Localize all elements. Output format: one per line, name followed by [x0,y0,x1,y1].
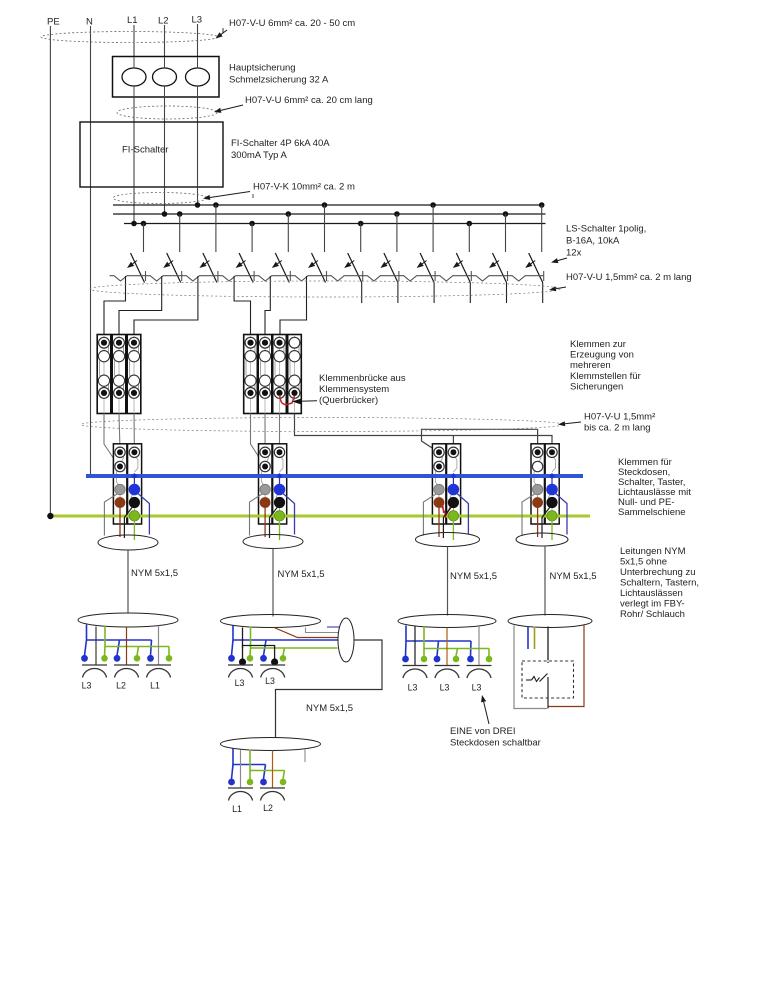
breaker LS3 trip arrow [205,261,209,264]
svg-text:Klemmenbrücke aus: Klemmenbrücke aus [319,373,406,384]
svg-text:12x: 12x [566,248,582,259]
wire N blue chain group1 [87,625,152,641]
breaker LS3 switch blade [203,253,217,283]
breaker LS10 input wire and bus junction [467,221,473,227]
bus L3 top rail [113,204,542,206]
breaker LS6 input wire and bus junction [322,202,328,208]
wire brown switched return right [549,625,585,707]
junction feed L1 on bottom rail [131,221,137,227]
wire K3 to socket terminal block 1 [133,414,135,451]
cable marker ellipse H07-V-U 1,5mm2 2m [90,281,560,297]
svg-text:Sammelschiene: Sammelschiene [618,507,686,518]
svg-text:Lichtauslässen: Lichtauslässen [620,588,683,599]
svg-text:L1: L1 [232,804,242,814]
breaker LS2 output wire to terminal [119,276,162,335]
breaker LS11 output stub wire [506,283,508,304]
svg-text:N: N [86,17,93,28]
socket L1 group3 [228,787,253,789]
svg-text:Leitungen NYM: Leitungen NYM [620,546,686,557]
svg-text:H07-V-U 1,5mm²: H07-V-U 1,5mm² [584,412,655,423]
svg-text:LS-Schalter 1polig,: LS-Schalter 1polig, [566,224,646,235]
breaker LS8 trip arrow [386,261,390,264]
cable marker ellipse H07-V-K 10mm2 [113,193,207,204]
breaker LS9 output stub wire [433,283,435,304]
svg-text:H07-V-K 10mm² ca. 2 m: H07-V-K 10mm² ca. 2 m [253,182,355,193]
breaker LS5 thermal element [254,276,290,281]
wire K7 phase feed to blocks 3 and 4 [295,414,553,451]
wire phase gray socket1 group3 [240,750,242,789]
breaker LS2 input wire and bus junction [177,211,183,217]
socket L3c group4 [467,665,492,667]
wire L3 fuse internal [197,57,199,69]
socket terminal block 3 body [432,444,460,524]
breaker LS6 trip arrow [314,261,318,264]
breaker LS4 output wire to terminal [234,276,250,335]
svg-text:NYM 5x1,5: NYM 5x1,5 [550,571,597,582]
svg-text:Schmelzsicherung 32 A: Schmelzsicherung 32 A [229,75,329,86]
breaker LS7 output stub wire [361,283,363,304]
svg-text:300mA Typ A: 300mA Typ A [231,150,287,161]
wire NYM drop 3 [447,547,449,616]
wire PE green chain group4 [424,627,489,649]
wire PE green chain group1 [105,626,169,647]
breaker LS5 switch blade [275,253,289,283]
svg-text:L3: L3 [235,678,245,688]
breaker LS2 trip arrow [169,261,173,264]
breaker LS12 switch blade [529,253,543,283]
svg-text:EINE von DREI: EINE von DREI [450,726,515,737]
node N dots group3 [228,779,235,786]
wire NYM drop 2 [272,549,274,617]
breaker LS12 thermal element [508,276,544,281]
wire PE rail vertical [49,26,51,516]
socket L3a group2 [228,664,253,666]
breaker LS6 switch blade [312,253,326,283]
svg-text:Klemmensystem: Klemmensystem [319,384,389,395]
node phase dots group2 [239,658,246,665]
socket terminal block 3 terminals and wires with red switch-wire [450,473,456,479]
wire chain block3-left to block4-left [422,429,538,450]
terminal strip group1 K1 [97,335,111,414]
svg-text:L1: L1 [150,681,160,691]
svg-text:Unterbrechung zu: Unterbrechung zu [620,567,696,578]
terminal strip group2 K6 [273,335,287,414]
breaker LS8 switch blade [384,253,398,283]
svg-text:Klemmstellen für: Klemmstellen für [570,371,641,382]
cable NYM ellipse under block4 [516,533,568,546]
RCD FI-Schalter 4P box [80,122,223,187]
socket terminal block 2 terminals and wires [277,473,283,479]
wire branch to block 3 right [452,436,454,451]
node PE dots group1 [101,655,108,662]
breaker LS11 switch blade [493,253,507,283]
node PE dots group2 [247,655,254,662]
wire gray to switch cable [306,628,339,633]
bus L1 bottom rail [124,223,546,225]
svg-text:Erzeugung von: Erzeugung von [570,350,634,361]
wire N blue chain group2 [233,626,338,641]
svg-text:L3: L3 [82,681,92,691]
cable NYM ellipse under block2 [243,535,303,549]
breaker LS3 input wire and bus junction [213,202,219,208]
socket terminal block 2 body [259,444,287,524]
bus N Sammelschiene blue [86,474,583,478]
wire brown to switch cable [274,628,338,638]
socket L3a group4 [403,665,428,667]
socket L2 group3 [260,787,285,789]
svg-text:Rohr/ Schlauch: Rohr/ Schlauch [620,609,685,620]
svg-text:Klemmen zur: Klemmen zur [570,339,626,350]
svg-text:FI-Schalter 4P 6kA 40A: FI-Schalter 4P 6kA 40A [231,138,330,149]
breaker LS6 output wire to terminal [280,276,307,335]
wire phase black to switch [547,627,549,672]
wire switch cable route down [276,640,383,738]
junction box ellipse group3 [221,738,321,751]
junction box ellipse group4 [398,615,496,628]
svg-text:PE: PE [47,17,60,28]
breaker LS6 thermal element [291,276,327,281]
breaker LS2 thermal element [146,276,182,281]
breaker LS4 switch blade [239,253,253,283]
breaker LS10 thermal element [435,276,471,281]
breaker LS9 trip arrow [422,261,426,264]
breaker LS3 output wire to terminal [134,276,198,335]
switch symbol [526,679,532,681]
wire FI output to bus L1 [133,187,135,224]
breaker LS9 input wire and bus junction [430,202,436,208]
node N dots group2 [228,655,235,662]
svg-text:Steckdosen schaltbar: Steckdosen schaltbar [450,738,541,749]
svg-text:L3: L3 [440,683,450,693]
socket terminal block 1 body (Klemmen fuer Steckdosen) [113,444,141,524]
svg-text:L2: L2 [158,16,169,27]
wire phase socket1 group1 [95,627,97,666]
jumper Klemmenbruecke red Querbruecker [280,395,295,405]
breaker LS9 thermal element [399,276,435,281]
wire gray switched return left [514,626,547,709]
svg-text:NYM 5x1,5: NYM 5x1,5 [450,571,497,582]
fuse element L1 [122,68,146,86]
wire N blue chain group4 [406,626,471,642]
breaker LS10 switch blade [456,253,470,283]
junction feed L2 on middle rail [162,211,168,217]
wire N blue stub group5 [527,627,529,650]
socket L1 group1 [146,664,171,666]
svg-text:L3: L3 [472,683,482,693]
wire L1 fuse internal [133,57,135,69]
node N dots group1 [81,655,88,662]
wire switch output [547,698,549,709]
arrow to breakers [558,258,567,261]
terminal strip group2 K5 [258,335,272,414]
wire phase socket3 group1 [158,626,160,666]
breaker LS7 trip arrow [350,261,354,264]
svg-text:L3: L3 [265,676,275,686]
breaker LS11 trip arrow [495,261,499,264]
svg-text:H07-V-U 6mm² ca. 20 - 50 cm: H07-V-U 6mm² ca. 20 - 50 cm [229,18,355,29]
junction PE rail to PE bus [47,513,53,519]
wire phase gray socket3 group4 [478,626,480,666]
svg-text:B-16A, 10kA: B-16A, 10kA [566,236,620,247]
wire phase black bridge group2 [242,628,244,660]
terminal strip group1 K3 [127,335,141,414]
breaker LS2 switch blade [167,253,181,283]
svg-text:mehreren: mehreren [570,360,611,371]
svg-text:5x1,5 ohne: 5x1,5 ohne [620,557,667,568]
wire PE green chain group2 [251,627,338,649]
terminal strip group2 K4 [244,335,258,414]
junction box ellipse group5 switch [508,615,592,628]
svg-text:H07-V-U 1,5mm² ca. 2 m lang: H07-V-U 1,5mm² ca. 2 m lang [566,272,692,283]
breaker LS11 thermal element [472,276,508,281]
breaker LS8 input wire and bus junction [394,211,400,217]
breaker LS10 trip arrow [458,261,462,264]
cable to switch vertical ellipse [338,618,354,662]
wire L1 vertical feed [133,25,135,224]
breaker LS8 output stub wire [397,283,399,304]
socket terminal block 4 terminals and wires [549,473,555,479]
wire L2 fuse internal [164,57,166,69]
junction feed L3 on top rail [195,202,201,208]
socket L3 group1 [82,664,107,666]
wire L3 fuse to FI [197,97,199,122]
socket L3b group2 [260,664,285,666]
breaker LS5 input wire and bus junction [286,211,292,217]
fuse element L2 [153,68,177,86]
wire K5 to socket terminal block 2 [264,414,266,451]
cable marker ellipse H07-V-U 1,5mm2 bis 2m [81,418,563,432]
wire phase orange socket2 group4 [446,628,448,666]
svg-text:verlegt im FBY-: verlegt im FBY- [620,599,685,610]
fuse element L3 [186,68,210,86]
node PE dots group4 [421,656,428,663]
breaker LS8 thermal element [363,276,399,281]
breaker LS1 output wire to terminal [104,276,126,335]
svg-text:Schaltern, Tastern,: Schaltern, Tastern, [620,578,699,589]
wire K2 to socket terminal block 1 [119,414,120,451]
wire phase socket2 group1 [126,627,128,665]
terminal strip group2 K7 [288,335,302,414]
breaker LS4 input wire and bus junction [249,221,255,227]
wire PE green chain group3 [250,750,285,771]
wire K4 to socket terminal block 2 [251,414,264,464]
breaker LS1 switch blade [131,253,145,283]
socket terminal block 4 body [531,444,559,524]
breaker LS5 output wire to terminal [265,276,270,335]
cable marker ellipse H07-V-U 6mm2 20cm [117,106,217,119]
cable NYM ellipse under block1 [98,535,158,550]
breaker LS10 output stub wire [469,283,471,304]
svg-text:NYM 5x1,5: NYM 5x1,5 [278,569,325,580]
breaker LS12 input wire and bus junction [539,202,545,208]
wire K1 to socket terminal block 1 [104,414,117,464]
wire L1 fuse to FI [133,97,135,122]
breaker LS4 trip arrow [241,261,245,264]
svg-text:L3: L3 [408,683,418,693]
svg-text:L2: L2 [116,681,126,691]
breaker LS1 trip arrow [133,261,137,264]
wire L2 fuse to FI [164,97,166,122]
breaker LS7 thermal element [327,276,363,281]
wire N blue chain group3 [233,749,266,765]
breaker LS5 trip arrow [277,261,281,264]
breaker LS1 thermal element [110,276,146,281]
wire L2 vertical feed [164,25,166,214]
breaker LS4 thermal element [218,276,254,281]
wire FI output to bus L2 [164,187,166,214]
breaker LS7 switch blade [348,253,362,283]
svg-text:H07-V-U 6mm² ca. 20 cm lang: H07-V-U 6mm² ca. 20 cm lang [245,95,373,106]
wire phase black socket1 group4 [414,626,416,666]
breaker LS11 input wire and bus junction [503,211,509,217]
cable NYM ellipse under block3 [416,533,480,547]
svg-text:L2: L2 [263,803,273,813]
svg-text:FI-Schalter: FI-Schalter [122,145,168,156]
wire NYM drop 4 [544,546,546,616]
wire spare gray stub group3 [304,750,306,763]
socket L2 group1 [114,664,139,666]
breaker LS9 switch blade [420,253,434,283]
breaker LS7 input wire and bus junction [358,221,364,227]
svg-text:Hauptsicherung: Hauptsicherung [229,63,296,74]
breaker LS12 output stub wire [542,283,544,304]
wire L3 vertical feed [197,24,199,205]
bus L2 middle rail [113,213,546,215]
node N dots group4 [402,656,409,663]
breaker LS3 thermal element [182,276,218,281]
wire darkblue to switch cable [327,626,340,628]
wire K6 to socket terminal block 2 [279,414,281,451]
wire FI output to bus L3 [197,187,199,205]
wire N rail vertical [90,26,92,476]
svg-text:L1: L1 [127,15,138,26]
junction box ellipse group1 [78,613,178,627]
svg-text:bis ca. 2 m lang: bis ca. 2 m lang [584,423,651,434]
node PE dots group3 [247,779,254,786]
junction box ellipse group2 [221,615,321,628]
wire NYM drop 1 [127,550,129,614]
socket terminal block 1 terminals and wires [131,473,137,479]
wire PE stub group5 [534,627,536,650]
bus PE Sammelschiene green [50,515,590,518]
terminal strip group1 K2 [112,335,126,414]
breaker LS1 input wire and bus junction [141,221,147,227]
svg-text:NYM 5x1,5: NYM 5x1,5 [306,703,353,714]
cable marker ellipse H07-V-U 6mm2 20-50cm [41,32,218,43]
svg-text:Sicherungen: Sicherungen [570,381,623,392]
breaker LS12 trip arrow [531,261,535,264]
svg-text:NYM 5x1,5: NYM 5x1,5 [131,568,178,579]
svg-text:L3: L3 [192,15,203,26]
fuse box Hauptsicherung Schmelzsicherung 32A [113,57,220,98]
switch box dashed outline [522,661,574,698]
socket L3b group4 [435,665,460,667]
svg-text:(Querbrücker): (Querbrücker) [319,395,378,406]
wire phase orange socket2 group3 [272,751,274,789]
